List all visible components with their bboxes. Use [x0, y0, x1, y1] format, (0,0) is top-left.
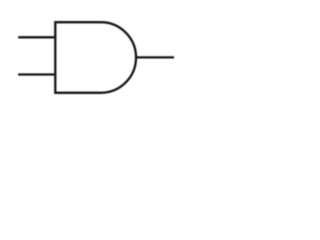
AND gate U1 body [55, 22, 136, 93]
wire input B [18, 73, 56, 75]
wire output [136, 56, 175, 58]
wire input A [18, 36, 56, 38]
